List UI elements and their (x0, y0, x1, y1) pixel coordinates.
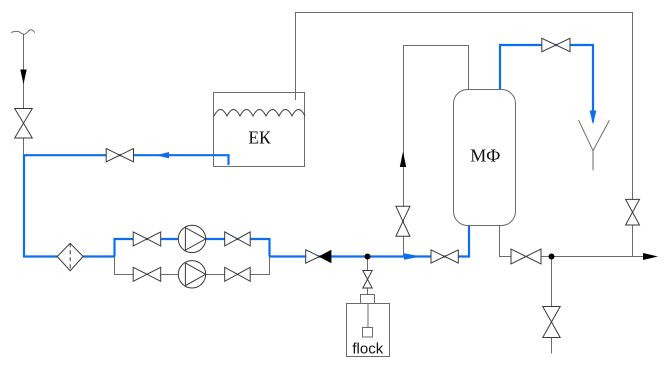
svg-text:flock: flock (352, 341, 383, 358)
svg-text:ЕК: ЕК (248, 128, 271, 148)
svg-text:МФ: МФ (470, 146, 500, 166)
